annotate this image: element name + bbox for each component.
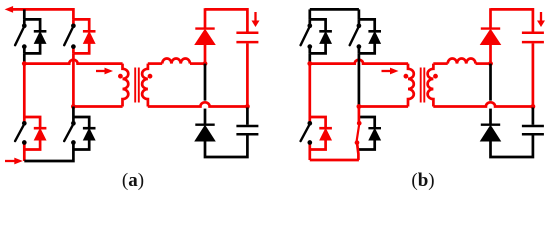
rect-a capacitor C_bot (black) [236, 125, 258, 128]
node B (leg B midpoint) [71, 104, 76, 109]
wire: Q3 bottom stub [308, 150, 311, 161]
rect-a node capacitor midpoint [245, 104, 250, 109]
transformer T_a secondary polarity dot [148, 74, 153, 79]
switch Q2 (top-right, black) wiring [359, 19, 375, 53]
wire: mid rail to primary with hop (red) [310, 60, 408, 64]
switch Q4 (bottom-right, closed red switch, black diode) [359, 117, 375, 150]
transformer T_a primary winding [123, 64, 129, 107]
wire: inductor to rectifier [190, 62, 205, 65]
rect-b top rail wire [491, 9, 533, 31]
switch S3 (bottom-left, red diode conducting) diode [34, 127, 47, 130]
switch S3 (bottom-left, red diode conducting) switch [15, 125, 23, 141]
wire: mid rail to primary with hop over leg B [24, 60, 122, 64]
switch S2 (top-right, red diode conducting) wiring [73, 19, 89, 53]
wire: secondary bottom with hop (b) [433, 102, 533, 106]
primary current arrow [96, 68, 113, 75]
switch S1 (top-left, black) diode [34, 30, 47, 33]
wire: leg B lower stub (black) [72, 107, 75, 118]
Q4 closed blade [358, 107, 361, 125]
rect-b output current arrow [537, 12, 545, 27]
rect-b capacitor C_top (red) [522, 32, 544, 35]
transformer T_b core [420, 68, 422, 103]
switch S1 (top-left, black) switch [15, 28, 23, 45]
switch S2 (top-right, red diode conducting) switch [64, 28, 72, 45]
rect-a node secondary+ junction [203, 61, 208, 66]
rect-b node capacitor midpoint [531, 104, 536, 109]
rect-a diode D_top (red, conducting) [204, 8, 207, 27]
wire: S1 to node A [23, 53, 26, 61]
switch Q3 (bottom-left, red diode conducting) switch [301, 125, 309, 141]
wire: Q1 to node A' (black) [308, 53, 311, 61]
primary current arrow (b) [382, 68, 399, 75]
wire: bottom DC rail (black) [24, 150, 73, 162]
wire: inductor to rectifier (b) [476, 62, 491, 65]
switch Q2 (top-right, black) switch [350, 28, 358, 45]
switch S1 (top-left, black) wiring [24, 19, 40, 53]
wire: S3 bottom stub [23, 150, 26, 162]
wire: leg stubs top [308, 9, 311, 19]
rect-b diode D_bot (black) [481, 123, 500, 125]
transformer T_b primary polarity dot [404, 74, 409, 79]
switch Q3 (bottom-left, red diode conducting) diode [319, 127, 332, 130]
node B' [357, 104, 362, 109]
transformer T_a secondary winding [142, 64, 148, 107]
svg-text:(b): (b) [411, 170, 434, 191]
rect-a output current arrow [252, 12, 260, 27]
wire: secondary bottom with hop over diode leg [148, 102, 248, 106]
transformer T_a primary polarity dot [118, 74, 123, 79]
transformer T_b secondary winding [428, 64, 434, 107]
wire: secondary top (b) [433, 62, 447, 65]
switch Q3 (bottom-left, red diode conducting) wiring [310, 117, 326, 150]
rect-a capacitor C_top (red) [236, 32, 258, 35]
rect-a diode D_bot (black) [195, 123, 214, 125]
transformer T_b secondary polarity dot [433, 74, 438, 79]
transformer T_a core [134, 68, 136, 103]
wire: leg B' vertical (black) [358, 53, 361, 106]
input return current arrow [5, 158, 23, 165]
rect-a top rail wire [205, 9, 247, 31]
rect-b node secondary+ junction [488, 61, 493, 66]
wire: bottom DC rail (red) [310, 159, 359, 162]
svg-text:(a): (a) [122, 170, 144, 191]
rect-a bottom wire [205, 135, 247, 157]
switch S4 (bottom-right, black) wiring [73, 117, 89, 150]
rect-b diode D_top (red, conducting) [489, 8, 492, 27]
switch S4 (bottom-right, black) switch [64, 125, 72, 141]
switch Q1 (top-left, black) wiring [310, 19, 326, 53]
node A' [307, 61, 312, 66]
wire: primary bottom (red) [359, 105, 408, 108]
switch Q2 (top-right, black) diode [368, 30, 381, 33]
rect-a wire diode leg (black, lower) [204, 64, 207, 101]
wire: leg S1 top stub [23, 9, 26, 19]
leakage inductor L_a [162, 58, 190, 63]
leakage inductor L_b [448, 58, 476, 63]
wire: primary bottom [73, 105, 122, 108]
wire: secondary top [148, 62, 162, 65]
switch S3 (bottom-left, red diode conducting) wiring [24, 117, 40, 150]
switch Q1 (top-left, black) switch [301, 28, 309, 45]
rect-b bottom wire [491, 135, 533, 157]
wire: leg B vertical (red) [72, 53, 75, 106]
rect-b capacitor C_bot (black) [522, 125, 544, 128]
switch S2 (top-right, red diode conducting) diode [83, 30, 96, 33]
node A (leg A midpoint) [22, 61, 27, 66]
wire: leg A' vertical (red) [308, 62, 311, 117]
switch S4 (bottom-right, black) diode [83, 127, 96, 130]
rect-b wire diode leg (black, lower) [489, 64, 492, 101]
switch Q1 (top-left, black) diode [319, 30, 332, 33]
wire: top DC rail (red) with input current arrow [5, 6, 16, 13]
wire: top DC rail (black) [310, 8, 359, 11]
wire: leg A vertical (red) [23, 62, 26, 117]
transformer T_b primary winding [408, 64, 414, 107]
